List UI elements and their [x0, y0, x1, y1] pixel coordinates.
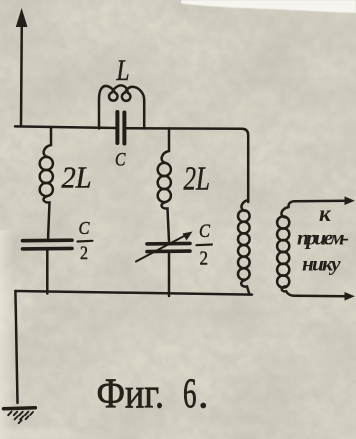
- wire top bus: [15, 126, 116, 128]
- label C/2 right: [196, 221, 212, 270]
- antenna A1: [16, 8, 28, 126]
- inductor L (bridge coil over C): [99, 85, 144, 128]
- svg-text:6: 6: [183, 372, 197, 418]
- svg-text:Фиг.: Фиг.: [97, 372, 165, 418]
- capacitor C/2 left: [23, 240, 73, 249]
- svg-text:.: .: [198, 372, 209, 418]
- wire output bottom with arrow: [295, 292, 355, 301]
- variable capacitor C/2 right: [136, 232, 193, 262]
- bleed-through text ghosts: [196, 12, 277, 28]
- wire ground lead: [15, 291, 17, 403]
- wire left branch bottom: [46, 250, 49, 294]
- capacitor C (series, vertical plates): [117, 112, 124, 144]
- inductor 2L right: [158, 151, 171, 241]
- transformer primary P1: [238, 200, 250, 295]
- wire top bus right: [127, 128, 249, 202]
- wire right branch top: [168, 129, 171, 151]
- ground E1: [4, 408, 36, 423]
- wire bottom bus: [15, 291, 252, 295]
- transformer secondary S1: [277, 201, 295, 296]
- inductor 2L left: [40, 145, 53, 240]
- wire right branch bottom: [168, 254, 171, 297]
- label C/2 left: [78, 218, 93, 264]
- wire left branch top: [50, 128, 53, 145]
- label: к приемнику: [297, 201, 349, 276]
- wire output top with arrow: [295, 196, 355, 205]
